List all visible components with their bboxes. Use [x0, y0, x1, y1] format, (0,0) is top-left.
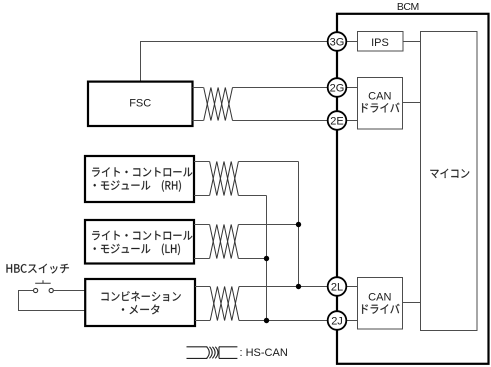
- wire RH top to bus A: [194, 161, 299, 163]
- label light control module LH line1: [92, 231, 192, 240]
- wire HBC switch to meter (upper): [53, 290, 85, 292]
- CAN driver box U2 (top): [358, 78, 403, 130]
- wire LH bottom to bus B: [194, 258, 267, 260]
- junction bus B to 2J wire: [264, 318, 269, 323]
- svg-text:2J: 2J: [331, 316, 343, 328]
- combination meter box: [85, 279, 195, 326]
- junction bus A to 2L wire: [296, 284, 301, 289]
- wire FSC to 2E: [193, 120, 328, 122]
- FSC box: [88, 82, 193, 126]
- wire CAN driver to maikon (bottom): [403, 302, 421, 304]
- svg-text:CAN: CAN: [368, 292, 391, 304]
- svg-text:FSC: FSC: [129, 97, 151, 109]
- wire IPS to maikon: [403, 41, 421, 43]
- svg-text:2E: 2E: [330, 116, 343, 128]
- wire 2G to CAN driver: [347, 87, 358, 89]
- wire 3G to IPS: [347, 41, 358, 43]
- wire 2E to CAN driver: [347, 120, 358, 122]
- label light control module LH line2: [94, 244, 180, 256]
- label doraiba (bottom): [362, 304, 399, 314]
- wire CAN driver to maikon (top): [403, 102, 421, 104]
- svg-text:IPS: IPS: [371, 37, 389, 49]
- twisted pair meter (HS-CAN): [210, 287, 239, 321]
- label combination meter line1: [102, 291, 181, 301]
- wire meter to 2L: [195, 286, 328, 288]
- twisted pair FSC (HS-CAN): [204, 88, 233, 121]
- svg-text:CAN: CAN: [368, 90, 391, 102]
- HBC switch label: [7, 264, 69, 274]
- bus wire A (CAN-H) vertical: [298, 162, 300, 287]
- light control module RH box: [85, 156, 194, 202]
- junction LH-L on bus B: [264, 256, 269, 261]
- label combination meter line2: [122, 305, 159, 315]
- wire 2J to CAN driver: [347, 320, 358, 322]
- twisted pair LH (HS-CAN): [210, 225, 239, 259]
- label light control module RH line2: [94, 180, 181, 192]
- wire LH top to bus A: [194, 224, 299, 226]
- legend twisted pair symbol: [187, 347, 238, 359]
- connector pin 2J: [328, 311, 347, 330]
- connector pin 2L: [328, 277, 347, 296]
- bus wire B (CAN-L) vertical: [266, 196, 268, 321]
- IPS box U1: [358, 32, 404, 52]
- label doraiba (top): [362, 103, 399, 113]
- connector pin 3G: [328, 32, 347, 51]
- connector pin 2E: [328, 111, 347, 130]
- microcontroller box U3 (maikon): [421, 32, 478, 331]
- wire 2L to CAN driver: [347, 286, 358, 288]
- wire HBC switch to meter (lower loop): [19, 291, 86, 311]
- junction LH-H on bus A: [296, 222, 301, 227]
- wire FSC to 3G: [141, 42, 328, 82]
- svg-text:: HS-CAN: : HS-CAN: [240, 347, 288, 359]
- connector pin 2G: [328, 78, 347, 97]
- light control module LH box: [85, 220, 194, 264]
- wire FSC to 2G: [193, 87, 328, 89]
- BCM box: [337, 14, 489, 364]
- svg-text:2G: 2G: [330, 83, 345, 95]
- wire RH bottom to bus B: [194, 195, 267, 197]
- CAN driver box U4 (bottom): [358, 278, 403, 330]
- svg-text:3G: 3G: [330, 37, 345, 49]
- wire meter to 2J: [195, 320, 328, 322]
- HBC switch SW1: [34, 280, 54, 292]
- svg-text:BCM: BCM: [397, 1, 419, 13]
- label light control module RH line1: [92, 167, 192, 176]
- twisted pair RH (HS-CAN): [210, 162, 239, 196]
- label maikon: [430, 169, 469, 178]
- svg-text:2L: 2L: [331, 282, 343, 294]
